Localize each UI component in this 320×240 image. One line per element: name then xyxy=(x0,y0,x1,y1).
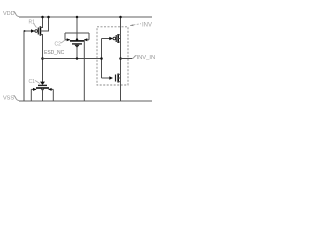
wire VSS label hook xyxy=(14,96,20,101)
node inverter at VDD xyxy=(119,16,122,19)
wire NMOS M2 drain arm xyxy=(118,73,120,75)
wire NMOS M2 bulk arm xyxy=(118,77,120,79)
svg-text:C2: C2 xyxy=(55,42,62,48)
node inverter output dot xyxy=(119,57,122,60)
node VDD label xyxy=(3,11,15,17)
transistor R1 gate plate xyxy=(37,28,39,35)
capacitor C2 left leg xyxy=(64,33,66,40)
wire C1 bulk leg xyxy=(42,88,44,101)
wire inverter gate bus xyxy=(101,39,103,79)
capacitor C2 label xyxy=(55,42,62,48)
transistor PMOS M1 gate plate xyxy=(115,35,117,42)
capacitor C1 right stub arrow xyxy=(49,88,54,90)
capacitor C1 gate plate xyxy=(38,84,47,86)
capacitor C2 leader xyxy=(61,40,66,43)
capacitor C2 channel plate xyxy=(70,40,85,42)
capacitor C1 left leg xyxy=(30,89,32,101)
svg-text:C1: C1 xyxy=(29,79,36,85)
capacitor C1 channel plate xyxy=(36,87,49,89)
wire R1 gate lead xyxy=(24,30,35,32)
wire NMOS source to VSS xyxy=(120,74,122,101)
capacitor C2 top bar xyxy=(65,32,89,34)
transistor NMOS M2 gate stub xyxy=(102,77,111,79)
node R1 gate corner dot xyxy=(24,30,26,32)
node C2 gate junction xyxy=(76,57,79,60)
capacitor C2 middle drop xyxy=(76,33,78,40)
wire R1 bulk arm xyxy=(40,17,48,31)
wire inverter output xyxy=(121,58,133,60)
transistor NMOS M2 gate arrow xyxy=(109,76,113,79)
transistor R1 gate bubble xyxy=(35,30,38,33)
transistor NMOS M2 gate plate xyxy=(115,75,117,82)
svg-text:INV: INV xyxy=(142,23,152,29)
wire INV_IN label hook xyxy=(132,56,137,59)
wire C2 gate to ESD_NC xyxy=(76,45,78,59)
wire VDD drop to C2 xyxy=(76,17,78,33)
wire VDD label hook xyxy=(14,12,20,17)
transistor R1 channel plate xyxy=(39,26,41,35)
node C2 bulk dot xyxy=(76,38,78,40)
node VSS label xyxy=(3,96,14,102)
wire NMOS M2 source arm xyxy=(118,81,120,83)
capacitor C2 gate plate xyxy=(72,43,82,45)
capacitor C1 leader xyxy=(35,81,40,84)
label INV callout leader xyxy=(130,24,141,26)
wire R1 gate to VSS xyxy=(23,31,25,101)
svg-text:ESD_NC: ESD_NC xyxy=(44,50,65,56)
node C1 bulk dot xyxy=(41,88,43,90)
capacitor C2 right leg xyxy=(88,33,90,40)
wire VDD drop to inverter xyxy=(120,17,122,35)
wire PMOS M1 source arm xyxy=(118,34,120,36)
svg-text:INV_IN: INV_IN xyxy=(137,55,156,61)
label INV xyxy=(142,23,152,29)
capacitor C2 left stub arrow xyxy=(65,39,70,41)
capacitor C2 gate arrow xyxy=(75,45,80,48)
node C2 at VDD xyxy=(76,16,79,19)
inverter dashed box xyxy=(97,27,128,85)
capacitor C1 gate arrow xyxy=(40,82,45,85)
capacitor C1 label xyxy=(29,79,36,85)
node ESD_NC junction on vertical xyxy=(41,57,44,60)
wire PMOS M1 drain arm xyxy=(118,41,120,43)
wire VSS rail xyxy=(19,100,152,102)
transistor PMOS M1 gate bubble xyxy=(113,37,116,40)
wire R1 source down to C1 xyxy=(40,35,42,83)
transistor R1 gate arrow xyxy=(31,29,35,32)
capacitor C1 right leg xyxy=(52,89,54,101)
transistor R1 label xyxy=(29,20,36,26)
svg-text:VDD: VDD xyxy=(3,11,15,17)
wire C2 bulk to VSS xyxy=(83,41,85,101)
wire ESD_NC horizontal xyxy=(43,58,102,60)
transistor PMOS M1 channel plate xyxy=(117,34,119,43)
transistor R1 leader xyxy=(34,24,37,28)
wire inverter middle xyxy=(120,35,122,75)
node gate bus junction xyxy=(100,57,103,60)
wire R1 drain arm xyxy=(40,17,42,28)
transistor NMOS M2 channel plate xyxy=(117,74,119,83)
node R1 drain at VDD xyxy=(41,16,44,19)
svg-text:VSS: VSS xyxy=(3,96,14,102)
node INV_IN label xyxy=(137,55,156,61)
wire VDD rail xyxy=(19,16,152,18)
node R1 bulk at VDD xyxy=(47,16,50,19)
transistor PMOS M1 gate arrow xyxy=(109,37,113,40)
transistor PMOS M1 gate stub xyxy=(102,38,111,40)
capacitor C2 right stub arrow xyxy=(84,39,89,41)
node ESD_NC label xyxy=(44,50,65,56)
wire PMOS M1 bulk arm xyxy=(118,38,120,40)
capacitor C1 left stub arrow xyxy=(31,88,36,90)
